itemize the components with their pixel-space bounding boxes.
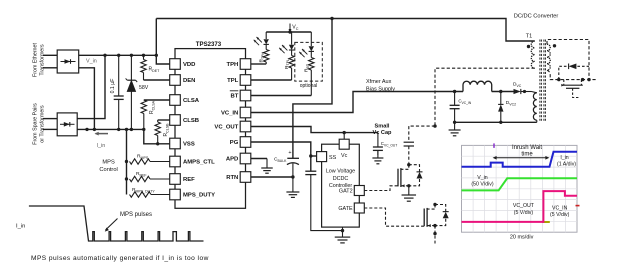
svg-text:Bias Supply: Bias Supply	[366, 86, 395, 92]
junction dots on rails	[103, 54, 106, 57]
pin APD	[240, 153, 251, 164]
pin Vc	[343, 133, 345, 140]
wire R_DET to DEN	[144, 79, 170, 81]
transistor Q2 switching FET	[433, 203, 436, 206]
wire bottom return rail	[77, 128, 144, 130]
ground Q1 source	[408, 186, 410, 195]
pin VDD	[170, 59, 181, 70]
inductor L_VC	[463, 81, 492, 91]
svg-text:RBT: RBT	[304, 63, 310, 72]
svg-text:DEN: DEN	[183, 78, 195, 84]
wire DCDC ground stub	[342, 227, 344, 231]
wire BT	[251, 95, 311, 97]
pin VSS	[170, 138, 181, 149]
pin REF	[170, 174, 181, 185]
svg-text:RMPS: RMPS	[137, 154, 149, 160]
wire VC_OUT net	[251, 127, 378, 133]
wire V_C rail	[266, 31, 311, 33]
pin SS	[317, 152, 327, 162]
svg-text:RCLSA: RCLSA	[149, 100, 155, 114]
pin MPS_DUTY	[170, 189, 181, 200]
wire V_in+ to C_BULK	[293, 19, 332, 159]
svg-text:APD: APD	[226, 157, 238, 163]
wire input stubs upper bridge	[43, 54, 57, 56]
wire TPL	[251, 79, 292, 81]
diode D_VC2	[499, 90, 502, 93]
capacitor C_VC_OUT	[377, 133, 379, 147]
wire Q2 source down (dashed)	[434, 226, 436, 244]
pin RTN	[240, 172, 251, 183]
wire upper bridge negative to bottom rail	[79, 68, 95, 130]
svg-text:Xfmer Aux: Xfmer Aux	[366, 79, 392, 85]
scope trace VC_IN (olive)	[542, 221, 550, 223]
svg-text:Vc: Vc	[341, 153, 348, 159]
resistor R_DET	[143, 55, 145, 59]
arrow I_in on return rail	[96, 133, 109, 135]
svg-text:I_in: I_in	[97, 143, 106, 149]
ground RTN/C_BULK	[292, 177, 294, 192]
svg-text:CBULK: CBULK	[274, 157, 287, 163]
ground C_VC_OUT	[377, 150, 379, 158]
pin BT	[240, 90, 251, 101]
svg-text:Vc Cap: Vc Cap	[373, 130, 393, 136]
waveform I_in MPS pulses	[29, 206, 204, 241]
svg-text:From Spare Pairs: From Spare Pairs	[33, 103, 39, 145]
wire APD to ground	[251, 158, 267, 160]
resistor R_REF	[130, 176, 151, 181]
svg-text:RCLSB: RCLSB	[163, 123, 169, 137]
diode LED D_TPL	[291, 32, 293, 45]
transformer T1 aux winding	[533, 93, 536, 120]
svg-text:VC: VC	[292, 25, 298, 31]
pin CLSB	[170, 115, 181, 126]
svg-text:AMPS_CTL: AMPS_CTL	[183, 160, 215, 166]
node V_C	[288, 30, 291, 33]
svg-text:optional: optional	[300, 83, 318, 89]
svg-text:DVC2: DVC2	[506, 100, 516, 106]
scope trigger tick	[493, 143, 495, 148]
svg-text:RMPS_DUTY: RMPS_DUTY	[132, 187, 155, 193]
svg-text:Small: Small	[375, 124, 390, 130]
optional dashed box	[295, 42, 323, 81]
node aux winding dot	[523, 90, 526, 93]
diode LED D_BT	[310, 32, 312, 46]
svg-text:CLSB: CLSB	[183, 118, 199, 124]
resistor R_CLSA	[141, 100, 146, 113]
wire T1 aux bottom	[536, 120, 538, 122]
svg-text:VC_OUT: VC_OUT	[513, 203, 535, 209]
svg-text:V_in: V_in	[477, 175, 487, 181]
diode LED D_TPH	[265, 32, 267, 39]
wire aux rail	[492, 91, 514, 93]
wire lower bridge positive up to V_in+ rail	[77, 55, 105, 118]
resistor R_TPL	[291, 50, 293, 56]
ground C_VC_IN	[454, 122, 456, 130]
svg-text:V_in: V_in	[86, 58, 97, 64]
op-amp U1 TPS2373 body	[175, 49, 246, 209]
scope trace V_in (green)	[462, 178, 578, 190]
wire CLSA	[144, 99, 170, 101]
wire GAT2 (dashed)	[364, 186, 398, 191]
svg-text:T1: T1	[526, 34, 533, 40]
node T1 secondary dot	[553, 44, 556, 47]
svg-text:0.1 µF: 0.1 µF	[110, 79, 116, 94]
svg-text:I_in: I_in	[560, 155, 568, 161]
wire TPH	[251, 63, 266, 65]
wire FET drain bus (dashed)	[409, 125, 435, 127]
svg-text:+: +	[288, 150, 291, 156]
wire VC_IN net	[251, 92, 463, 113]
wire VDD feed	[156, 19, 169, 65]
svg-text:VC_IN: VC_IN	[221, 111, 238, 117]
wire SS	[311, 155, 317, 157]
diode output rectifier (dashed loop)	[559, 66, 589, 79]
pin TPL	[240, 75, 251, 86]
diode D_VC	[520, 89, 522, 94]
svg-text:TPS2373: TPS2373	[196, 41, 222, 48]
svg-text:time: time	[521, 151, 533, 157]
svg-text:Transformers: Transformers	[40, 44, 46, 76]
svg-text:MPS pulses: MPS pulses	[120, 212, 152, 218]
node T1 primary dot	[527, 45, 530, 48]
svg-text:MPS pulses automatically gener: MPS pulses automatically generated if I_…	[31, 255, 209, 262]
wire input stubs lower bridge	[43, 118, 57, 120]
ground APD	[266, 159, 268, 169]
svg-text:DC/DC Converter: DC/DC Converter	[514, 13, 559, 19]
svg-text:20 ms/div: 20 ms/div	[510, 234, 534, 240]
svg-text:CVC_IN: CVC_IN	[458, 99, 471, 105]
wire MPS rail	[126, 129, 128, 194]
pin DEN	[170, 75, 181, 86]
svg-text:I_in: I_in	[16, 224, 25, 230]
svg-text:VDD: VDD	[183, 62, 195, 68]
zener diode 58V TVS	[130, 55, 132, 80]
wire secondary top (dashed)	[547, 40, 589, 80]
svg-text:MPS_DUTY: MPS_DUTY	[183, 193, 215, 199]
wire secondary bottom (dashed)	[547, 70, 598, 79]
svg-text:RREF: RREF	[136, 171, 147, 177]
svg-text:(50 V/div): (50 V/div)	[471, 181, 493, 187]
scope inset background grid	[462, 145, 578, 232]
resistor R_TPH	[265, 44, 267, 49]
svg-text:CLSA: CLSA	[183, 98, 200, 104]
svg-text:GATE: GATE	[338, 206, 353, 212]
svg-text:or Transformers: or Transformers	[40, 105, 46, 143]
capacitor C_VC_IN	[453, 90, 456, 93]
diode bridge B2 (spare pairs)	[57, 113, 77, 136]
capacitor C_BULK	[287, 157, 299, 159]
svg-text:CVC_OUT: CVC_OUT	[381, 141, 397, 147]
arrow inrush wait span	[495, 157, 547, 159]
svg-text:Control: Control	[99, 167, 117, 173]
wire primary return (dashed)	[435, 68, 535, 126]
svg-text:RTPH: RTPH	[258, 51, 264, 62]
wire PG/SS net	[251, 142, 311, 171]
svg-text:VC_OUT: VC_OUT	[214, 125, 238, 131]
capacitor C_SS	[305, 170, 316, 172]
svg-text:(5 V/div): (5 V/div)	[550, 212, 570, 218]
op-amp U2 DCDC controller body	[322, 144, 360, 227]
svg-text:DVC: DVC	[513, 82, 522, 88]
wire RTN	[251, 176, 293, 178]
svg-text:REF: REF	[183, 177, 195, 183]
wire GATE (dashed)	[364, 208, 424, 226]
resistor R_BT	[310, 51, 312, 57]
pin PG	[240, 137, 251, 148]
transistor Q3 sync FET (dashed)	[564, 80, 582, 86]
svg-text:RTN: RTN	[226, 175, 238, 181]
svg-text:Low Voltage: Low Voltage	[326, 169, 355, 175]
capacitor snubber (dashed lead)	[408, 126, 410, 142]
junction V_in top	[330, 17, 333, 20]
svg-text:RTPL: RTPL	[284, 59, 290, 69]
scope trace I_in (blue)	[462, 152, 578, 167]
wire VSS net	[144, 129, 170, 143]
wire main V_in+ top	[156, 19, 534, 42]
resistor R_MPS	[130, 159, 151, 164]
ground DCDC	[342, 231, 344, 238]
svg-text:GAT2: GAT2	[339, 189, 353, 195]
transistor Q1 switching FET	[407, 163, 410, 166]
pin VC_OUT	[240, 121, 251, 132]
wire CLSB	[158, 119, 170, 121]
transformer T1 core	[539, 40, 541, 122]
svg-text:TPH: TPH	[227, 62, 239, 68]
svg-text:DCDC: DCDC	[333, 176, 349, 182]
pin VC_IN	[240, 107, 251, 118]
wire V_in+ rail	[79, 54, 157, 56]
svg-text:VSS: VSS	[183, 142, 195, 148]
svg-text:RDET: RDET	[149, 67, 161, 73]
resistor R_CLSB	[157, 120, 159, 122]
pin AMPS_CTL	[170, 156, 181, 167]
pin GATE	[354, 203, 364, 213]
transformer T1 primary winding	[531, 41, 534, 68]
diode bridge B1 (Ethernet pairs)	[57, 50, 78, 73]
wire aux bottom rail	[455, 121, 537, 123]
svg-text:BT: BT	[230, 94, 238, 100]
svg-text:PG: PG	[230, 140, 239, 146]
svg-text:VC_IN: VC_IN	[552, 206, 568, 212]
svg-text:(1 A/div): (1 A/div)	[557, 162, 576, 168]
svg-text:MPS: MPS	[102, 160, 115, 166]
pin CLSA	[170, 95, 181, 106]
svg-text:SS: SS	[329, 155, 337, 161]
transformer T1 secondary winding	[547, 44, 550, 70]
pin TPH	[240, 59, 251, 70]
capacitor 0.1uF	[118, 55, 120, 96]
svg-text:Inrush Wait: Inrush Wait	[512, 145, 542, 151]
pin GAT2	[354, 186, 364, 196]
svg-text:58V: 58V	[139, 85, 149, 91]
scope trace VC_OUT (magenta)	[462, 191, 578, 222]
svg-text:(5 V/div): (5 V/div)	[514, 210, 534, 216]
svg-text:From Ethernet: From Ethernet	[33, 43, 39, 77]
svg-text:TPL: TPL	[227, 78, 239, 84]
resistor R_MPS_DUTY	[130, 192, 151, 197]
